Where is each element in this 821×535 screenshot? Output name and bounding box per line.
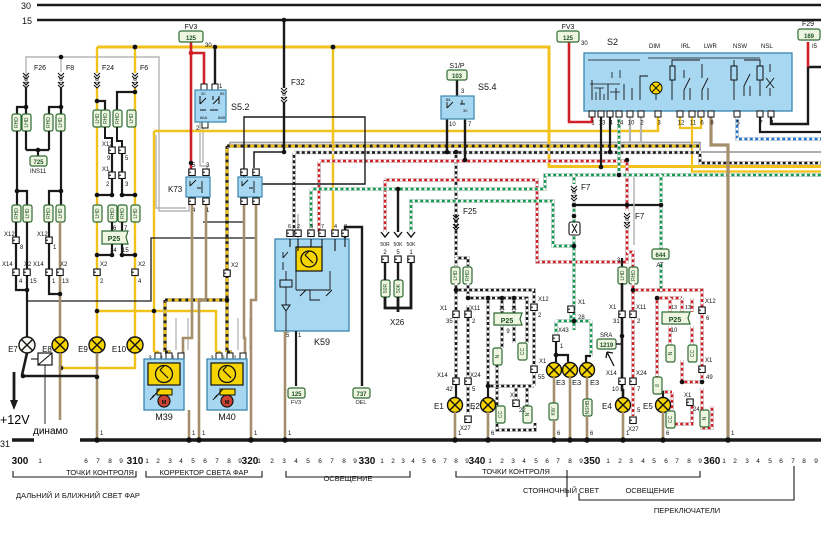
S2 pins — [589, 111, 595, 117]
svg-text:6: 6 — [545, 458, 549, 465]
wire black SRA column — [621, 283, 624, 311]
+12V arrow — [13, 372, 16, 404]
wire black X12 column a — [15, 222, 17, 271]
svg-text:LWR: LWR — [704, 44, 718, 50]
svg-text:N: N — [702, 416, 708, 420]
svg-text:1: 1 — [380, 458, 384, 465]
svg-text:9: 9 — [353, 458, 357, 465]
svg-text:X24: X24 — [636, 371, 647, 377]
svg-text:X1: X1 — [684, 393, 692, 399]
wire brown column d — [59, 222, 62, 271]
generator symbol — [38, 353, 52, 365]
lamp E5 — [657, 392, 663, 398]
lamp E3 a — [547, 363, 562, 378]
svg-text:X43: X43 — [558, 328, 569, 334]
svg-text:50R: 50R — [380, 242, 390, 248]
svg-text:M: M — [162, 400, 167, 406]
svg-text:RHD: RHD — [631, 270, 637, 281]
svg-text:10: 10 — [572, 191, 578, 197]
svg-text:M: M — [225, 400, 230, 406]
wire red-white striped ladder column — [631, 283, 635, 311]
svg-text:11: 11 — [690, 121, 697, 127]
wire grey band — [230, 143, 821, 153]
wire brown E8 feed — [49, 276, 60, 294]
svg-text:6: 6 — [288, 224, 291, 230]
svg-text:30: 30 — [201, 91, 206, 96]
wire grey frame to K73 — [159, 131, 189, 211]
svg-text:24: 24 — [693, 407, 700, 413]
svg-text:F29: F29 — [802, 21, 814, 28]
wire green S2 pin14 drop — [617, 117, 621, 175]
svg-text:N: N — [495, 354, 501, 358]
svg-text:OEL: OEL — [355, 400, 366, 406]
svg-text:S5.4: S5.4 — [478, 82, 497, 92]
svg-text:FV3: FV3 — [291, 400, 301, 406]
svg-text:3: 3 — [310, 224, 313, 230]
svg-text:X26: X26 — [390, 318, 405, 327]
wire black-white striped band — [294, 153, 821, 164]
wire green-white striped E3 column — [572, 234, 576, 330]
svg-text:4: 4 — [179, 458, 183, 465]
wire thin leader K73b pin1 — [27, 206, 256, 301]
wire grey K59 pin2 stub — [297, 214, 299, 239]
svg-text:P25: P25 — [501, 318, 514, 325]
svg-text:9: 9 — [579, 458, 583, 465]
wire black S2 pin4 drop — [609, 117, 611, 152]
svg-text:2: 2 — [391, 458, 395, 465]
svg-text:7: 7 — [443, 458, 447, 465]
wire black X12 column c — [48, 222, 50, 271]
svg-text:6: 6 — [203, 458, 207, 465]
svg-text:3: 3 — [282, 458, 286, 465]
svg-text:X2: X2 — [231, 263, 239, 269]
wire brown K73b pin1 to rail31 — [251, 205, 256, 438]
wire brown E4 — [622, 412, 625, 438]
control unit P25 (mid) — [494, 313, 522, 325]
svg-text:IRL: IRL — [681, 44, 691, 50]
connector row 1b on lamp feed columns — [97, 101, 105, 110]
svg-text:1: 1 — [488, 458, 492, 465]
svg-text:14: 14 — [617, 121, 624, 127]
svg-text:13: 13 — [671, 305, 677, 311]
control unit P25 (right) — [662, 312, 690, 324]
wire black to INS11 — [26, 131, 49, 156]
svg-text:ТОЧКИ КОНТРОЛЯ: ТОЧКИ КОНТРОЛЯ — [482, 467, 550, 476]
svg-text:2: 2 — [270, 458, 274, 465]
svg-text:N: N — [668, 351, 674, 355]
svg-text:F32: F32 — [291, 78, 305, 87]
svg-text:N: N — [525, 412, 531, 416]
wire green-white striped band — [311, 175, 821, 189]
svg-text:1: 1 — [38, 458, 42, 465]
wire black S2 pin13 drop — [600, 117, 602, 167]
lamp E4 — [616, 398, 631, 413]
svg-text:7: 7 — [215, 458, 219, 465]
svg-text:13: 13 — [685, 305, 691, 311]
svg-text:LHD: LHD — [95, 113, 101, 123]
svg-text:F8: F8 — [66, 65, 74, 72]
svg-text:31: 31 — [0, 439, 10, 449]
svg-text:10: 10 — [449, 122, 456, 128]
svg-text:50K: 50K — [396, 283, 402, 293]
svg-text:86B: 86B — [218, 115, 225, 120]
svg-text:7: 7 — [330, 458, 334, 465]
svg-text:X2 X14: X2 X14 — [24, 262, 44, 268]
wire yellow S2 pin11 to right edge — [692, 117, 821, 172]
svg-text:15: 15 — [22, 16, 32, 26]
svg-text:SRA: SRA — [600, 333, 612, 339]
svg-text:ДАЛЬНИЙ И БЛИЖНИЙ СВЕТ ФАР: ДАЛЬНИЙ И БЛИЖНИЙ СВЕТ ФАР — [16, 491, 140, 500]
svg-text:INS11: INS11 — [30, 169, 47, 175]
relay S5.2 — [201, 84, 207, 90]
wire yellow under-lamp tie E8/E10 — [61, 353, 135, 368]
wire black column b — [26, 222, 28, 271]
svg-text:ОСВЕЩЕНИЕ: ОСВЕЩЕНИЕ — [323, 474, 372, 483]
svg-text:X14: X14 — [2, 262, 13, 268]
wire red-white striped ladder — [633, 290, 702, 307]
wire black to E4 — [622, 385, 623, 398]
wire brown E1 — [454, 412, 457, 438]
wire brown K59 pin5 — [284, 331, 287, 438]
svg-text:9: 9 — [238, 458, 242, 465]
wire brown S2 pin8 main drop — [711, 117, 728, 438]
svg-text:6: 6 — [664, 458, 668, 465]
svg-text:4: 4 — [641, 458, 645, 465]
svg-text:X1: X1 — [609, 305, 617, 311]
wire black callout frame — [244, 117, 365, 184]
lamp E3 c — [580, 363, 595, 378]
wire yellow bus A (rail to S2 area) — [97, 47, 821, 167]
svg-text:S5.2: S5.2 — [231, 102, 250, 112]
lamp E9 — [89, 337, 105, 353]
svg-text:X2: X2 — [138, 262, 146, 268]
svg-text:X11: X11 — [636, 305, 647, 311]
svg-text:LHD: LHD — [453, 270, 459, 280]
svg-text:AT: AT — [656, 263, 664, 269]
svg-text:7: 7 — [675, 458, 679, 465]
wire black group2 hooks — [17, 131, 27, 205]
svg-text:CC: CC — [498, 411, 504, 419]
svg-text:M40: M40 — [218, 412, 236, 422]
wire red F29 — [807, 42, 810, 67]
wire yellow K59 pin4 drop — [333, 47, 335, 237]
svg-text:11: 11 — [511, 306, 517, 312]
wire black F32 column — [283, 20, 285, 152]
svg-text:F25: F25 — [463, 207, 477, 216]
svg-text:9: 9 — [698, 458, 702, 465]
svg-text:RHD: RHD — [110, 208, 116, 219]
connector boxes SRA column — [618, 267, 627, 284]
wire red FV3a to S5.2/K73 — [191, 41, 204, 170]
wire brown M39 ground — [188, 410, 191, 438]
svg-text:RHD: RHD — [103, 113, 109, 124]
svg-text:X27: X27 — [460, 426, 471, 432]
connector row 2 — [12, 205, 21, 222]
wire thin leader K73b pin4 — [203, 206, 244, 222]
wire black-white striped K59 pin6 drop — [290, 153, 294, 238]
wire black P25 bottom ties — [97, 244, 135, 255]
svg-text:4: 4 — [294, 458, 298, 465]
wire yellow-black striped band — [227, 144, 700, 148]
svg-text:2: 2 — [156, 458, 160, 465]
svg-text:4: 4 — [411, 458, 415, 465]
lamp E3 b — [563, 363, 578, 378]
svg-text:10: 10 — [625, 218, 631, 224]
svg-text:F26: F26 — [34, 65, 46, 72]
svg-text:K59: K59 — [314, 337, 330, 347]
wire yellow F6 column to E10 — [134, 88, 136, 337]
lamp E2 — [487, 386, 489, 398]
wire red-white striped F25 lower run — [384, 180, 627, 262]
svg-text:RHD: RHD — [14, 208, 20, 219]
svg-text:35: 35 — [446, 319, 453, 325]
lamp E1 — [455, 385, 457, 398]
svg-text:E7: E7 — [8, 345, 18, 354]
svg-text:8: 8 — [568, 458, 572, 465]
svg-text:КОРРЕКТОР СВЕТА ФАР: КОРРЕКТОР СВЕТА ФАР — [159, 468, 248, 477]
svg-text:P25: P25 — [108, 236, 121, 243]
svg-text:M39: M39 — [155, 412, 173, 422]
svg-text:CC: CC — [690, 350, 696, 358]
svg-text:LHD: LHD — [133, 208, 139, 218]
svg-text:9: 9 — [814, 458, 818, 465]
svg-text:10: 10 — [59, 78, 65, 84]
svg-text:NSHB: NSHB — [585, 400, 591, 415]
svg-text:LHD: LHD — [24, 117, 30, 127]
svg-text:LHD: LHD — [58, 117, 64, 127]
svg-text:5: 5 — [306, 458, 310, 465]
svg-text:10: 10 — [24, 78, 30, 84]
svg-text:7: 7 — [96, 458, 100, 465]
svg-text:KW: KW — [551, 407, 557, 415]
wire green-white striped AT column — [659, 175, 663, 250]
wire brown E2 — [487, 412, 490, 438]
svg-text:5: 5 — [534, 458, 538, 465]
wire black F7a tie — [574, 204, 661, 206]
wire red-white striped band — [319, 159, 627, 163]
svg-text:340: 340 — [469, 456, 486, 467]
svg-text:30: 30 — [205, 43, 212, 49]
svg-text:F7: F7 — [635, 212, 645, 221]
connector X2 corrector — [224, 270, 230, 277]
lamp E8 — [52, 337, 68, 353]
wire black S1P to S5.4 — [456, 78, 458, 96]
svg-text:S2: S2 — [607, 37, 618, 47]
wire brown K73a pin4 to M39 — [183, 205, 192, 358]
svg-text:X1: X1 — [705, 358, 713, 364]
svg-text:49: 49 — [706, 375, 713, 381]
svg-text:5: 5 — [768, 458, 772, 465]
wire grey S2 pin10 drop — [629, 117, 631, 143]
svg-text:LHD: LHD — [620, 270, 626, 280]
wire brown E8 below — [59, 353, 62, 420]
svg-text:300: 300 — [12, 456, 29, 467]
svg-text:5: 5 — [422, 458, 426, 465]
wire brown K73a pin1 to rail31 — [199, 205, 206, 438]
svg-text:4: 4 — [756, 458, 760, 465]
wire black F26 split — [17, 88, 26, 114]
svg-text:350: 350 — [584, 456, 601, 467]
svg-text:ТОЧКИ КОНТРОЛЯ: ТОЧКИ КОНТРОЛЯ — [66, 468, 134, 477]
control box 725 INS11 — [30, 156, 47, 166]
svg-text:S1/P: S1/P — [449, 63, 465, 70]
svg-text:50K: 50K — [407, 242, 417, 248]
svg-text:X14: X14 — [606, 371, 617, 377]
wire yellow S2 pin12-pin6 link — [680, 117, 701, 128]
wire red-white striped F7b column upper — [625, 160, 629, 211]
wire brown K73b pin4 to M40 — [244, 205, 245, 358]
svg-text:RHD: RHD — [46, 117, 52, 128]
svg-text:2: 2 — [618, 458, 622, 465]
svg-text:5: 5 — [652, 458, 656, 465]
svg-text:5: 5 — [191, 458, 195, 465]
lamp E10 — [127, 337, 143, 353]
section brackets — [13, 471, 136, 477]
svg-text:3: 3 — [511, 458, 515, 465]
svg-text:15: 15 — [30, 279, 37, 285]
svg-text:6: 6 — [779, 458, 783, 465]
svg-text:X1: X1 — [539, 359, 547, 365]
wire green-white striped F7a drop — [572, 175, 576, 184]
svg-text:LHD: LHD — [95, 208, 101, 218]
wire brown E3a — [553, 377, 556, 405]
wire brown E5 — [662, 412, 665, 438]
svg-text:LHD: LHD — [129, 113, 135, 123]
wire black E3 ties — [556, 342, 591, 362]
wire black 737 drop — [345, 227, 362, 386]
connector boxes mid — [93, 205, 102, 222]
svg-text:8: 8 — [227, 458, 231, 465]
svg-text:360: 360 — [704, 456, 721, 467]
svg-text:DIM: DIM — [649, 44, 660, 50]
wire red FV3b to S2 pin1 — [569, 42, 592, 122]
wire black X26 drop — [397, 189, 399, 232]
svg-text:85: 85 — [220, 91, 225, 96]
svg-text:+12V: +12V — [0, 413, 30, 427]
wire green-white striped K59 pin3 drop — [309, 189, 313, 237]
svg-text:F6: F6 — [140, 65, 148, 72]
svg-text:50R: 50R — [383, 284, 389, 294]
svg-text:X2: X2 — [100, 262, 108, 268]
svg-text:9: 9 — [465, 458, 469, 465]
wire yellow bus B (mid) — [154, 117, 658, 131]
svg-text:12: 12 — [678, 121, 685, 127]
connector boxes above E1 ladder — [451, 267, 460, 284]
wire black S5.4 pin10 — [446, 119, 448, 152]
svg-text:4: 4 — [522, 458, 526, 465]
svg-text:13: 13 — [62, 279, 69, 285]
svg-text:11: 11 — [499, 306, 505, 312]
svg-text:NSL: NSL — [761, 44, 773, 50]
svg-text:737: 737 — [356, 392, 367, 398]
svg-text:1219: 1219 — [600, 343, 614, 349]
wire grey frame M40 pin1 — [238, 318, 250, 350]
svg-text:30: 30 — [21, 1, 31, 11]
svg-text:X12: X12 — [705, 299, 716, 305]
svg-text:725: 725 — [33, 160, 44, 166]
svg-text:10: 10 — [612, 387, 619, 393]
wire black ladder verticals — [112, 154, 122, 195]
svg-text:E4: E4 — [602, 402, 612, 411]
wire yellow F6 drop — [134, 47, 136, 73]
svg-text:RHD: RHD — [465, 270, 471, 281]
wire green-white striped lower run — [411, 201, 574, 246]
svg-text:8: 8 — [802, 458, 806, 465]
fuse label 737 OEL — [353, 388, 370, 398]
svg-text:2: 2 — [297, 224, 300, 230]
wire black S2 pin4b F29 — [771, 67, 821, 124]
lamp E7 — [19, 337, 35, 353]
wire yellow headlamp leveling feed — [154, 131, 158, 358]
svg-text:NSW: NSW — [733, 44, 747, 50]
svg-text:10: 10 — [133, 78, 139, 84]
svg-text:X14: X14 — [437, 373, 448, 379]
wire black S5.4 pin7 — [464, 119, 466, 160]
svg-text:42: 42 — [446, 387, 453, 393]
svg-text:10: 10 — [454, 220, 460, 226]
wire red-white striped X26 drop — [383, 180, 387, 232]
svg-text:X27: X27 — [628, 427, 639, 433]
svg-text:X1: X1 — [440, 306, 448, 312]
wire red-white striped F7b column lower — [627, 228, 633, 267]
wire brown E3c — [586, 377, 589, 400]
svg-text:8: 8 — [454, 458, 458, 465]
svg-text:9: 9 — [119, 458, 123, 465]
svg-text:I5: I5 — [812, 44, 818, 50]
svg-text:E3: E3 — [572, 378, 581, 387]
connector symbol below F7a — [569, 222, 580, 235]
svg-text:13: 13 — [599, 121, 606, 127]
svg-text:7: 7 — [791, 458, 795, 465]
svg-text:ПЕРЕКЛЮЧАТЕЛИ: ПЕРЕКЛЮЧАТЕЛИ — [654, 506, 720, 515]
svg-text:55: 55 — [538, 375, 545, 381]
wire black E7 switch — [22, 353, 27, 375]
svg-text:E10: E10 — [112, 345, 127, 354]
svg-text:1: 1 — [145, 458, 149, 465]
svg-text:RHD: RHD — [46, 208, 52, 219]
svg-text:3: 3 — [401, 458, 405, 465]
wire yellow-black striped corrector — [165, 146, 230, 358]
svg-text:СТОЯНОЧНЫЙ СВЕТ: СТОЯНОЧНЫЙ СВЕТ — [523, 486, 600, 495]
svg-text:E5: E5 — [643, 402, 653, 411]
wire black-white striped ladder — [454, 283, 458, 311]
svg-text:6: 6 — [432, 458, 436, 465]
svg-text:3: 3 — [168, 458, 172, 465]
svg-text:7: 7 — [321, 224, 324, 230]
svg-text:7: 7 — [556, 458, 560, 465]
svg-text:FV3: FV3 — [185, 24, 198, 31]
wire grey frame F26/F8 — [26, 57, 159, 131]
wire black ladder to P25 — [112, 222, 122, 231]
wire brown E9 to rail31 — [96, 353, 99, 438]
svg-text:125: 125 — [291, 392, 302, 398]
svg-text:330: 330 — [359, 456, 376, 467]
svg-text:10: 10 — [95, 78, 101, 84]
svg-text:22: 22 — [519, 408, 526, 414]
svg-text:3: 3 — [745, 458, 749, 465]
wire brown E3b — [569, 377, 572, 438]
svg-text:310: 310 — [127, 456, 144, 467]
svg-text:E1: E1 — [434, 402, 444, 411]
wire black E7 feed — [16, 276, 27, 337]
svg-text:169: 169 — [804, 34, 815, 40]
svg-text:8: 8 — [108, 458, 112, 465]
svg-text:ОСВЕЩЕНИЕ: ОСВЕЩЕНИЕ — [625, 486, 674, 495]
svg-text:P25: P25 — [669, 317, 682, 324]
control unit P25 (left) — [102, 231, 128, 244]
svg-text:3: 3 — [629, 458, 633, 465]
relay K73 right — [241, 169, 247, 176]
